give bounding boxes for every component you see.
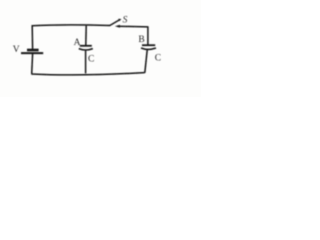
- svg-text:V: V: [13, 45, 20, 55]
- wire bottom rail: [31, 73, 144, 75]
- wire battery bottom down to bottom rail: [31, 54, 34, 74]
- svg-text:B: B: [138, 35, 144, 45]
- wire top-right corner down to capacitor B: [147, 26, 149, 45]
- wire capacitor A branch from top rail to top plate: [85, 26, 87, 46]
- capacitor A top plate: [80, 45, 92, 47]
- switch S blade tip arrowhead: [118, 19, 121, 21]
- svg-text:C: C: [88, 54, 94, 64]
- battery V top plate (short thick, negative): [27, 49, 39, 52]
- battery V bottom plate (long, positive): [21, 52, 43, 54]
- capacitor B top plate: [142, 44, 155, 46]
- wire switch right contact to top-right corner, with left arrowhead: [117, 25, 148, 28]
- capacitor B bottom plate (curved): [141, 48, 156, 49]
- svg-text:C: C: [155, 53, 161, 63]
- capacitor A bottom plate (curved): [79, 49, 93, 50]
- wire capacitor A bottom to bottom rail: [85, 51, 87, 74]
- svg-text:S: S: [123, 15, 128, 25]
- switch S blade: [110, 20, 120, 26]
- wire capacitor B bottom to bottom-right corner: [145, 50, 147, 73]
- svg-text:A: A: [74, 38, 81, 48]
- wire top-left from battery up and across to switch pivot: [32, 25, 110, 49]
- switch right contact arrowhead: [115, 25, 120, 28]
